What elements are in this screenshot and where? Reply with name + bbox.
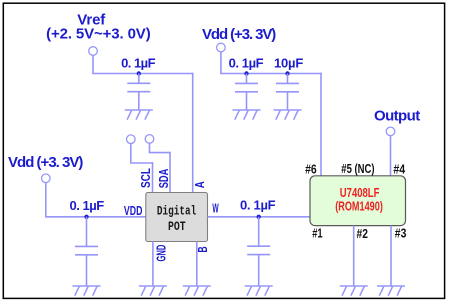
wire SDA vertical 1 <box>149 143 151 152</box>
wire GND pin vertical <box>152 242 154 287</box>
component U2 Digital POT box <box>146 193 208 242</box>
wire SCL pin vertical <box>152 162 154 193</box>
ground below C1 <box>125 110 153 120</box>
svg-text:GND: GND <box>153 245 168 262</box>
svg-text:A: A <box>192 181 207 188</box>
wire Vref rail horizontal <box>92 73 193 75</box>
wire C3 top stub <box>287 74 289 84</box>
wire Output vertical to pin4 <box>390 136 392 177</box>
wire SCL horizontal <box>130 162 153 164</box>
svg-text:#2: #2 <box>357 226 368 241</box>
svg-text:Output: Output <box>374 107 420 124</box>
svg-text:0. 1µF: 0. 1µF <box>229 56 264 71</box>
ground below C4 <box>73 286 101 296</box>
wire B pin vertical <box>196 242 198 287</box>
svg-text:#1: #1 <box>312 225 322 240</box>
wire Vdd vertical <box>220 52 222 74</box>
ground below B pin <box>183 286 211 296</box>
svg-text:10µF: 10µF <box>274 56 303 71</box>
wire C4 top stub <box>86 217 88 247</box>
svg-text:(+2. 5V~+3. 0V): (+2. 5V~+3. 0V) <box>46 26 151 43</box>
ground below C2 <box>233 110 261 120</box>
wire C5 top stub <box>258 217 260 246</box>
svg-text:(ROM1490): (ROM1490) <box>335 199 383 214</box>
svg-text:0. 1µF: 0. 1µF <box>121 56 156 71</box>
node junction C4 <box>84 215 88 219</box>
capacitor C4 0.1uF (Vdd left) <box>75 246 98 254</box>
svg-text:#3: #3 <box>395 226 407 241</box>
wire A pin vertical <box>192 73 194 193</box>
node Output terminal <box>386 127 395 136</box>
wire SCL vertical 1 <box>130 144 132 164</box>
node Vref terminal <box>89 47 98 56</box>
capacitor C5 0.1uF (W line) <box>247 246 270 254</box>
node Vdd left terminal <box>42 174 51 183</box>
wire C1 bottom stub <box>138 92 140 110</box>
wire C5 bottom stub <box>258 255 260 286</box>
svg-text:SDA: SDA <box>156 168 171 188</box>
svg-text:0. 1µF: 0. 1µF <box>70 198 105 213</box>
wire C4 bottom stub <box>86 255 88 286</box>
ground below pin3 <box>377 286 405 296</box>
svg-text:POT: POT <box>168 219 186 234</box>
svg-text:Digital: Digital <box>157 203 197 218</box>
wire SDA pin vertical <box>169 152 171 193</box>
wire Vdd left vertical <box>45 183 47 217</box>
wire SDA horizontal <box>149 152 171 154</box>
capacitor C1 0.1uF (Vref) <box>127 83 150 91</box>
wire pin6 vertical <box>320 73 322 177</box>
svg-text:#6: #6 <box>305 162 317 177</box>
svg-text:#4: #4 <box>393 162 405 177</box>
node junction C3 <box>285 71 289 75</box>
svg-text:VDD: VDD <box>124 203 142 218</box>
capacitor C3 10uF (Vdd) <box>276 83 299 91</box>
wire pin3 vertical <box>390 226 392 286</box>
node junction C1 <box>137 71 141 75</box>
wire C1 top stub <box>138 74 140 84</box>
svg-text:0. 1µF: 0. 1µF <box>240 198 276 213</box>
ground below C3 <box>274 110 302 120</box>
capacitor C2 0.1uF (Vdd) <box>235 83 258 91</box>
node Vdd top terminal <box>217 43 226 52</box>
svg-text:Vdd (+3. 3V): Vdd (+3. 3V) <box>202 26 276 43</box>
node junction C5 <box>257 215 261 219</box>
ground below C5 <box>245 286 273 296</box>
node SDA terminal <box>145 135 154 144</box>
wire VDD pin horizontal <box>45 216 146 218</box>
svg-text:SCL: SCL <box>138 168 153 188</box>
wire W to U1 horizontal <box>208 216 311 218</box>
node junction C2 <box>244 71 248 75</box>
svg-text:#5 (NC): #5 (NC) <box>341 161 374 176</box>
node SCL terminal <box>127 135 136 144</box>
component U1 U7408LF box <box>310 176 406 226</box>
wire Vref vertical <box>92 55 94 73</box>
wire Vdd rail horizontal <box>220 73 322 75</box>
wire pin2 vertical <box>353 226 355 286</box>
wire C3 bottom stub <box>287 92 289 110</box>
ground below pin2 <box>340 286 368 296</box>
wire C2 top stub <box>246 74 248 84</box>
svg-text:Vdd (+3. 3V): Vdd (+3. 3V) <box>8 154 83 171</box>
wire C2 bottom stub <box>246 92 248 110</box>
svg-text:W: W <box>212 200 219 215</box>
ground below GND pin <box>139 286 167 296</box>
